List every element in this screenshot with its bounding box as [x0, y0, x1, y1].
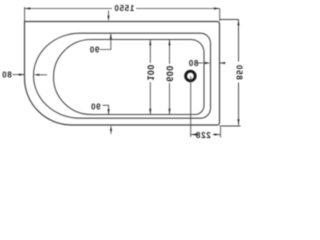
- dimension 90 top outside arrow: [108, 11, 110, 18]
- drain center extension line: [190, 76, 192, 137]
- svg-text:90: 90: [89, 45, 99, 54]
- dimension 80 drain arrow outside tail: [220, 62, 226, 64]
- dimension 80 drain leader: [198, 62, 203, 64]
- dimension 1550 arrow right: [25, 7, 31, 9]
- dimension 600 arrow bottom: [168, 109, 170, 115]
- dimension 850 arrow bottom: [237, 119, 239, 125]
- svg-text:100: 100: [146, 64, 156, 80]
- dimension 850 line: [238, 20, 240, 126]
- svg-text:850: 850: [235, 64, 244, 79]
- dimension 850 extension bottom: [220, 125, 241, 127]
- dimension 1550 arrow left: [214, 7, 220, 9]
- dimension 228 arrow left: [214, 133, 220, 135]
- dimension 80 right rim arrow shaft: [39, 74, 47, 76]
- drain circle: [186, 71, 196, 81]
- dimension 80 drain arrow outside: [220, 62, 226, 64]
- dimension 850 extension top: [220, 19, 239, 21]
- dimension 100 arrow top: [149, 40, 151, 46]
- dimension 90 bottom outside arrow: [110, 130, 112, 135]
- dimension 80 right rim leader: [13, 74, 25, 76]
- svg-text:1550: 1550: [114, 4, 135, 13]
- dimension 600 arrow top: [168, 40, 170, 46]
- tub rim contour: [34, 33, 211, 118]
- dimension 80 drain arrow at rim: [205, 62, 211, 64]
- dimension 90 bottom arrow inside: [108, 109, 110, 115]
- dimension 90 top leader: [100, 34, 111, 50]
- dimension 80 right rim arrow at rim: [34, 74, 40, 76]
- dimension 1550 extension left: [219, 9, 221, 22]
- dimension 100 line: [149, 40, 151, 115]
- dimension 90 top arrow inside: [110, 33, 112, 39]
- svg-text:228: 228: [195, 131, 210, 140]
- dimension 228 arrow right: [191, 133, 197, 135]
- dimension 100 arrow bottom: [149, 109, 151, 115]
- svg-text:80: 80: [188, 59, 198, 68]
- dimension 228 extension: [220, 127, 222, 138]
- dimension 1550 extension right: [24, 7, 26, 21]
- svg-text:80: 80: [1, 71, 11, 80]
- svg-text:90: 90: [90, 103, 100, 112]
- dimension 850 arrow top: [237, 20, 239, 26]
- svg-text:600: 600: [165, 65, 175, 81]
- tub floor contour: [54, 40, 205, 115]
- mirrored drawing group: original drawn normally, flipped horizontally: [1, 4, 243, 140]
- dimension 90 bottom leader: [103, 105, 109, 114]
- dimension 600 line: [169, 40, 171, 115]
- dimension 1550 line: [25, 8, 220, 10]
- dimension 80 right rim arrow at outer edge: [19, 74, 25, 76]
- dimension 228 line: [191, 134, 220, 136]
- tub outer outline: [25, 22, 220, 126]
